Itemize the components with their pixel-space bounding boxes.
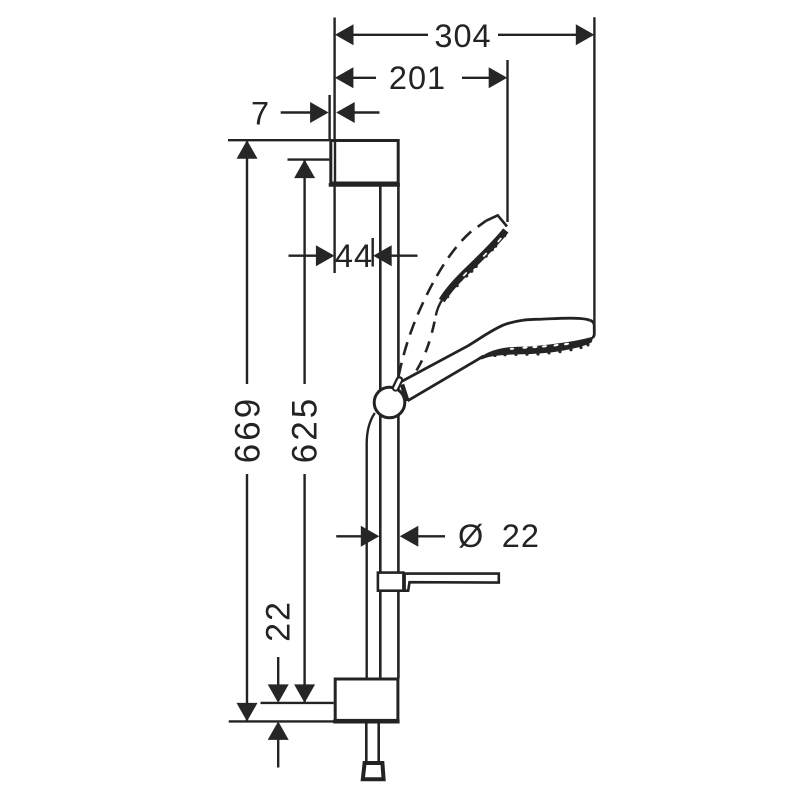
reference line 669 top	[228, 139, 329, 141]
extension line bracket left stub	[328, 95, 330, 139]
arrow 7 outer-left	[310, 102, 329, 123]
holder ball	[374, 387, 405, 418]
dim line 304	[353, 34, 428, 36]
arrow diameter22 outer-left	[361, 526, 380, 547]
hand shower solid: spray face band (filled)	[482, 338, 593, 359]
dim line 22 vertical	[277, 657, 279, 686]
dim line 44	[289, 254, 317, 256]
extension line 201 right x=507.5	[506, 60, 508, 222]
top bracket wall plate inner line	[334, 141, 336, 184]
hand shower solid: lower outline	[408, 356, 484, 401]
svg-text:304: 304	[434, 18, 491, 54]
soap dish block on rail	[378, 573, 404, 591]
arrow 669 bottom	[237, 703, 258, 722]
dashed position: nozzle white notches	[463, 238, 501, 276]
svg-text:201: 201	[389, 60, 446, 96]
hand shower solid: spray face scallop bumps	[493, 344, 589, 358]
reference line 625/22 bottom	[261, 702, 334, 704]
holder clamp nub	[396, 380, 400, 388]
arrow 201 left	[335, 67, 354, 88]
arrow 304 right	[576, 24, 595, 45]
hand shower solid: head right cap	[590, 320, 595, 337]
dashed position: solid thin neck line	[436, 301, 442, 316]
extension line wall reference x=334.6	[333, 18, 335, 140]
reference line 625 top	[288, 158, 330, 160]
bottom wall bracket	[335, 679, 398, 720]
arrow 669 top	[237, 140, 258, 159]
hand shower dashed raised position: front edge	[417, 316, 436, 371]
top bracket thick base line	[329, 183, 400, 187]
arrow diameter22 outer-right	[400, 526, 419, 547]
arrow 7 outer-right	[336, 102, 355, 123]
arrow 201 right	[489, 67, 508, 88]
soap dish arm	[405, 574, 499, 591]
arrow 304 left	[335, 24, 354, 45]
arrow 22 lower (points up)	[268, 721, 289, 740]
arrow 625 bottom	[294, 684, 315, 703]
hand shower solid: nozzle white slashes	[510, 342, 570, 350]
svg-text:625: 625	[286, 396, 325, 463]
hand shower dashed raised position: back edge	[399, 221, 486, 376]
rail left edge	[379, 185, 382, 679]
dim line 201	[353, 77, 376, 79]
svg-text:Ø: Ø	[458, 518, 484, 554]
hand shower solid: handle top edge and head top	[402, 318, 590, 381]
dim line 669 vertical	[246, 140, 248, 384]
bottom bracket thick base line	[333, 720, 399, 724]
rail right edge	[397, 185, 400, 679]
reference line 669/22 bottom	[229, 720, 334, 722]
arrow 22 upper (points down)	[268, 684, 289, 703]
extension line 304 right x=594.5	[593, 17, 595, 324]
dashed position: head cap corner	[486, 215, 507, 226]
hose conical end nut	[363, 763, 384, 779]
hand shower solid: handle butt edge	[402, 385, 407, 401]
dashed position: spray face band	[442, 231, 506, 301]
svg-text:7: 7	[251, 96, 270, 132]
hose below bracket left edge	[365, 722, 368, 762]
dim line diameter 22	[336, 535, 361, 537]
arrow 44 outer-left	[316, 245, 335, 266]
svg-text:44: 44	[335, 238, 373, 274]
dashed position: spray face bumps	[446, 234, 507, 299]
hand shower solid: body fill	[402, 318, 595, 401]
dim line 625 vertical	[303, 160, 305, 384]
svg-text:22: 22	[502, 518, 540, 554]
hose below bracket right edge	[377, 722, 380, 762]
svg-text:22: 22	[260, 600, 298, 642]
svg-text:669: 669	[229, 396, 268, 463]
top wall bracket	[331, 141, 398, 184]
arrow 625 top	[294, 160, 315, 179]
dim line 7	[281, 111, 311, 113]
arrow 44 outer-right	[373, 245, 392, 266]
shower hose upper run	[367, 413, 375, 679]
extension tick 44 right	[372, 238, 374, 267]
